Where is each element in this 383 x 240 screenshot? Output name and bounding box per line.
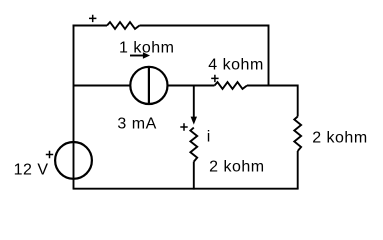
wire middle right + right rail top	[247, 86, 298, 117]
resistor R2 4 kohm	[215, 82, 248, 89]
resistor R1 1 kohm (top)	[107, 22, 140, 29]
arrowhead current i (down)	[191, 117, 197, 125]
wire right rail bottom	[297, 151, 299, 189]
voltage source V1 12 V	[55, 142, 92, 179]
wire middle segment (source to 4 kohm)	[168, 85, 215, 87]
wire top (node A to node B)	[73, 25, 107, 27]
wire branch i bottom	[193, 162, 195, 190]
svg-text:12 V: 12 V	[14, 161, 49, 178]
resistor R3 2 kohm (middle, current i)	[190, 128, 197, 162]
plus polarity mark (4 kohm)	[211, 75, 218, 82]
svg-text:4 kohm: 4 kohm	[208, 57, 263, 74]
svg-text:1 kohm: 1 kohm	[119, 40, 174, 57]
resistor R4 2 kohm (right)	[294, 117, 301, 152]
svg-text:3 mA: 3 mA	[117, 115, 156, 132]
plus polarity mark (12 V source)	[46, 151, 53, 158]
wire middle left segment	[74, 85, 131, 87]
plus polarity mark (resistor i)	[180, 123, 187, 130]
arrow current source direction (right, under 1 kohm label)	[130, 52, 150, 58]
current source I1 3 mA	[130, 67, 167, 104]
svg-text:2 kohm: 2 kohm	[312, 130, 367, 147]
wire branch i (arrow shaft from middle wire)	[193, 86, 195, 118]
wire left rail	[73, 25, 75, 189]
wire top right + right drop to middle wire	[140, 26, 269, 87]
plus polarity mark (top left, 1 kohm)	[89, 15, 96, 22]
wire bottom	[73, 188, 299, 190]
svg-text:i: i	[207, 129, 211, 146]
svg-text:2 kohm: 2 kohm	[209, 158, 264, 175]
